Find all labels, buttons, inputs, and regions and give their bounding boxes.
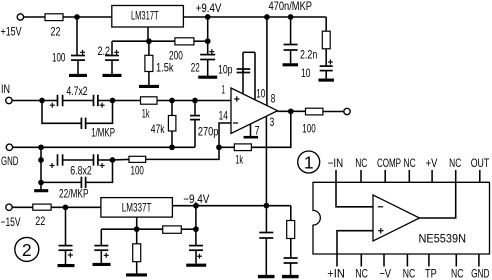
svg-text:GND: GND bbox=[1, 154, 19, 168]
svg-text:OUT: OUT bbox=[471, 156, 490, 170]
svg-text:+V: +V bbox=[426, 156, 438, 170]
svg-text:100: 100 bbox=[131, 164, 145, 178]
svg-text:−15V: −15V bbox=[1, 215, 21, 229]
svg-text:10: 10 bbox=[256, 86, 265, 100]
svg-text:GND: GND bbox=[471, 267, 490, 280]
svg-text:3: 3 bbox=[270, 115, 275, 129]
svg-text:22: 22 bbox=[51, 25, 61, 39]
svg-text:470n/MKP: 470n/MKP bbox=[269, 0, 313, 13]
svg-text:2.2: 2.2 bbox=[98, 44, 111, 58]
svg-text:TP: TP bbox=[425, 267, 437, 280]
svg-text:8: 8 bbox=[271, 92, 276, 106]
svg-text:NC: NC bbox=[355, 267, 368, 280]
svg-text:1.5k: 1.5k bbox=[156, 61, 174, 75]
svg-text:1/MKP: 1/MKP bbox=[91, 125, 115, 139]
svg-text:NC: NC bbox=[449, 156, 461, 170]
svg-text:NC: NC bbox=[355, 156, 367, 170]
svg-text:−IN: −IN bbox=[328, 156, 343, 170]
svg-text:2: 2 bbox=[22, 240, 32, 260]
svg-text:270p: 270p bbox=[198, 125, 219, 139]
svg-text:1: 1 bbox=[304, 153, 314, 173]
svg-text:6.8x2: 6.8x2 bbox=[70, 163, 92, 177]
svg-text:10p: 10p bbox=[218, 62, 233, 76]
svg-text:47k: 47k bbox=[151, 122, 166, 136]
svg-text:COMP: COMP bbox=[377, 156, 401, 170]
svg-text:1k: 1k bbox=[235, 152, 243, 166]
svg-text:+15V: +15V bbox=[1, 25, 22, 39]
svg-text:14: 14 bbox=[219, 109, 228, 123]
svg-text:22: 22 bbox=[35, 214, 45, 228]
svg-text:IN: IN bbox=[1, 82, 10, 96]
svg-text:7: 7 bbox=[255, 123, 260, 137]
svg-text:NC: NC bbox=[451, 267, 464, 280]
svg-text:4.7x2: 4.7x2 bbox=[66, 84, 88, 98]
svg-text:1: 1 bbox=[222, 83, 226, 97]
svg-text:10: 10 bbox=[301, 66, 311, 80]
svg-text:NE5539N: NE5539N bbox=[419, 231, 467, 245]
svg-text:2.2n: 2.2n bbox=[300, 48, 317, 62]
svg-text:+9.4V: +9.4V bbox=[196, 1, 222, 15]
svg-text:LM337T: LM337T bbox=[122, 201, 152, 215]
svg-text:LM317T: LM317T bbox=[131, 8, 159, 22]
svg-text:+IN: +IN bbox=[327, 267, 345, 280]
svg-text:22/MKP: 22/MKP bbox=[59, 187, 89, 201]
svg-text:NC: NC bbox=[404, 156, 416, 170]
svg-text:NC: NC bbox=[403, 267, 416, 280]
svg-text:100: 100 bbox=[52, 51, 66, 65]
svg-text:22: 22 bbox=[191, 61, 200, 75]
svg-text:100: 100 bbox=[302, 121, 316, 135]
svg-text:−V: −V bbox=[379, 267, 391, 280]
svg-text:1k: 1k bbox=[142, 107, 150, 121]
